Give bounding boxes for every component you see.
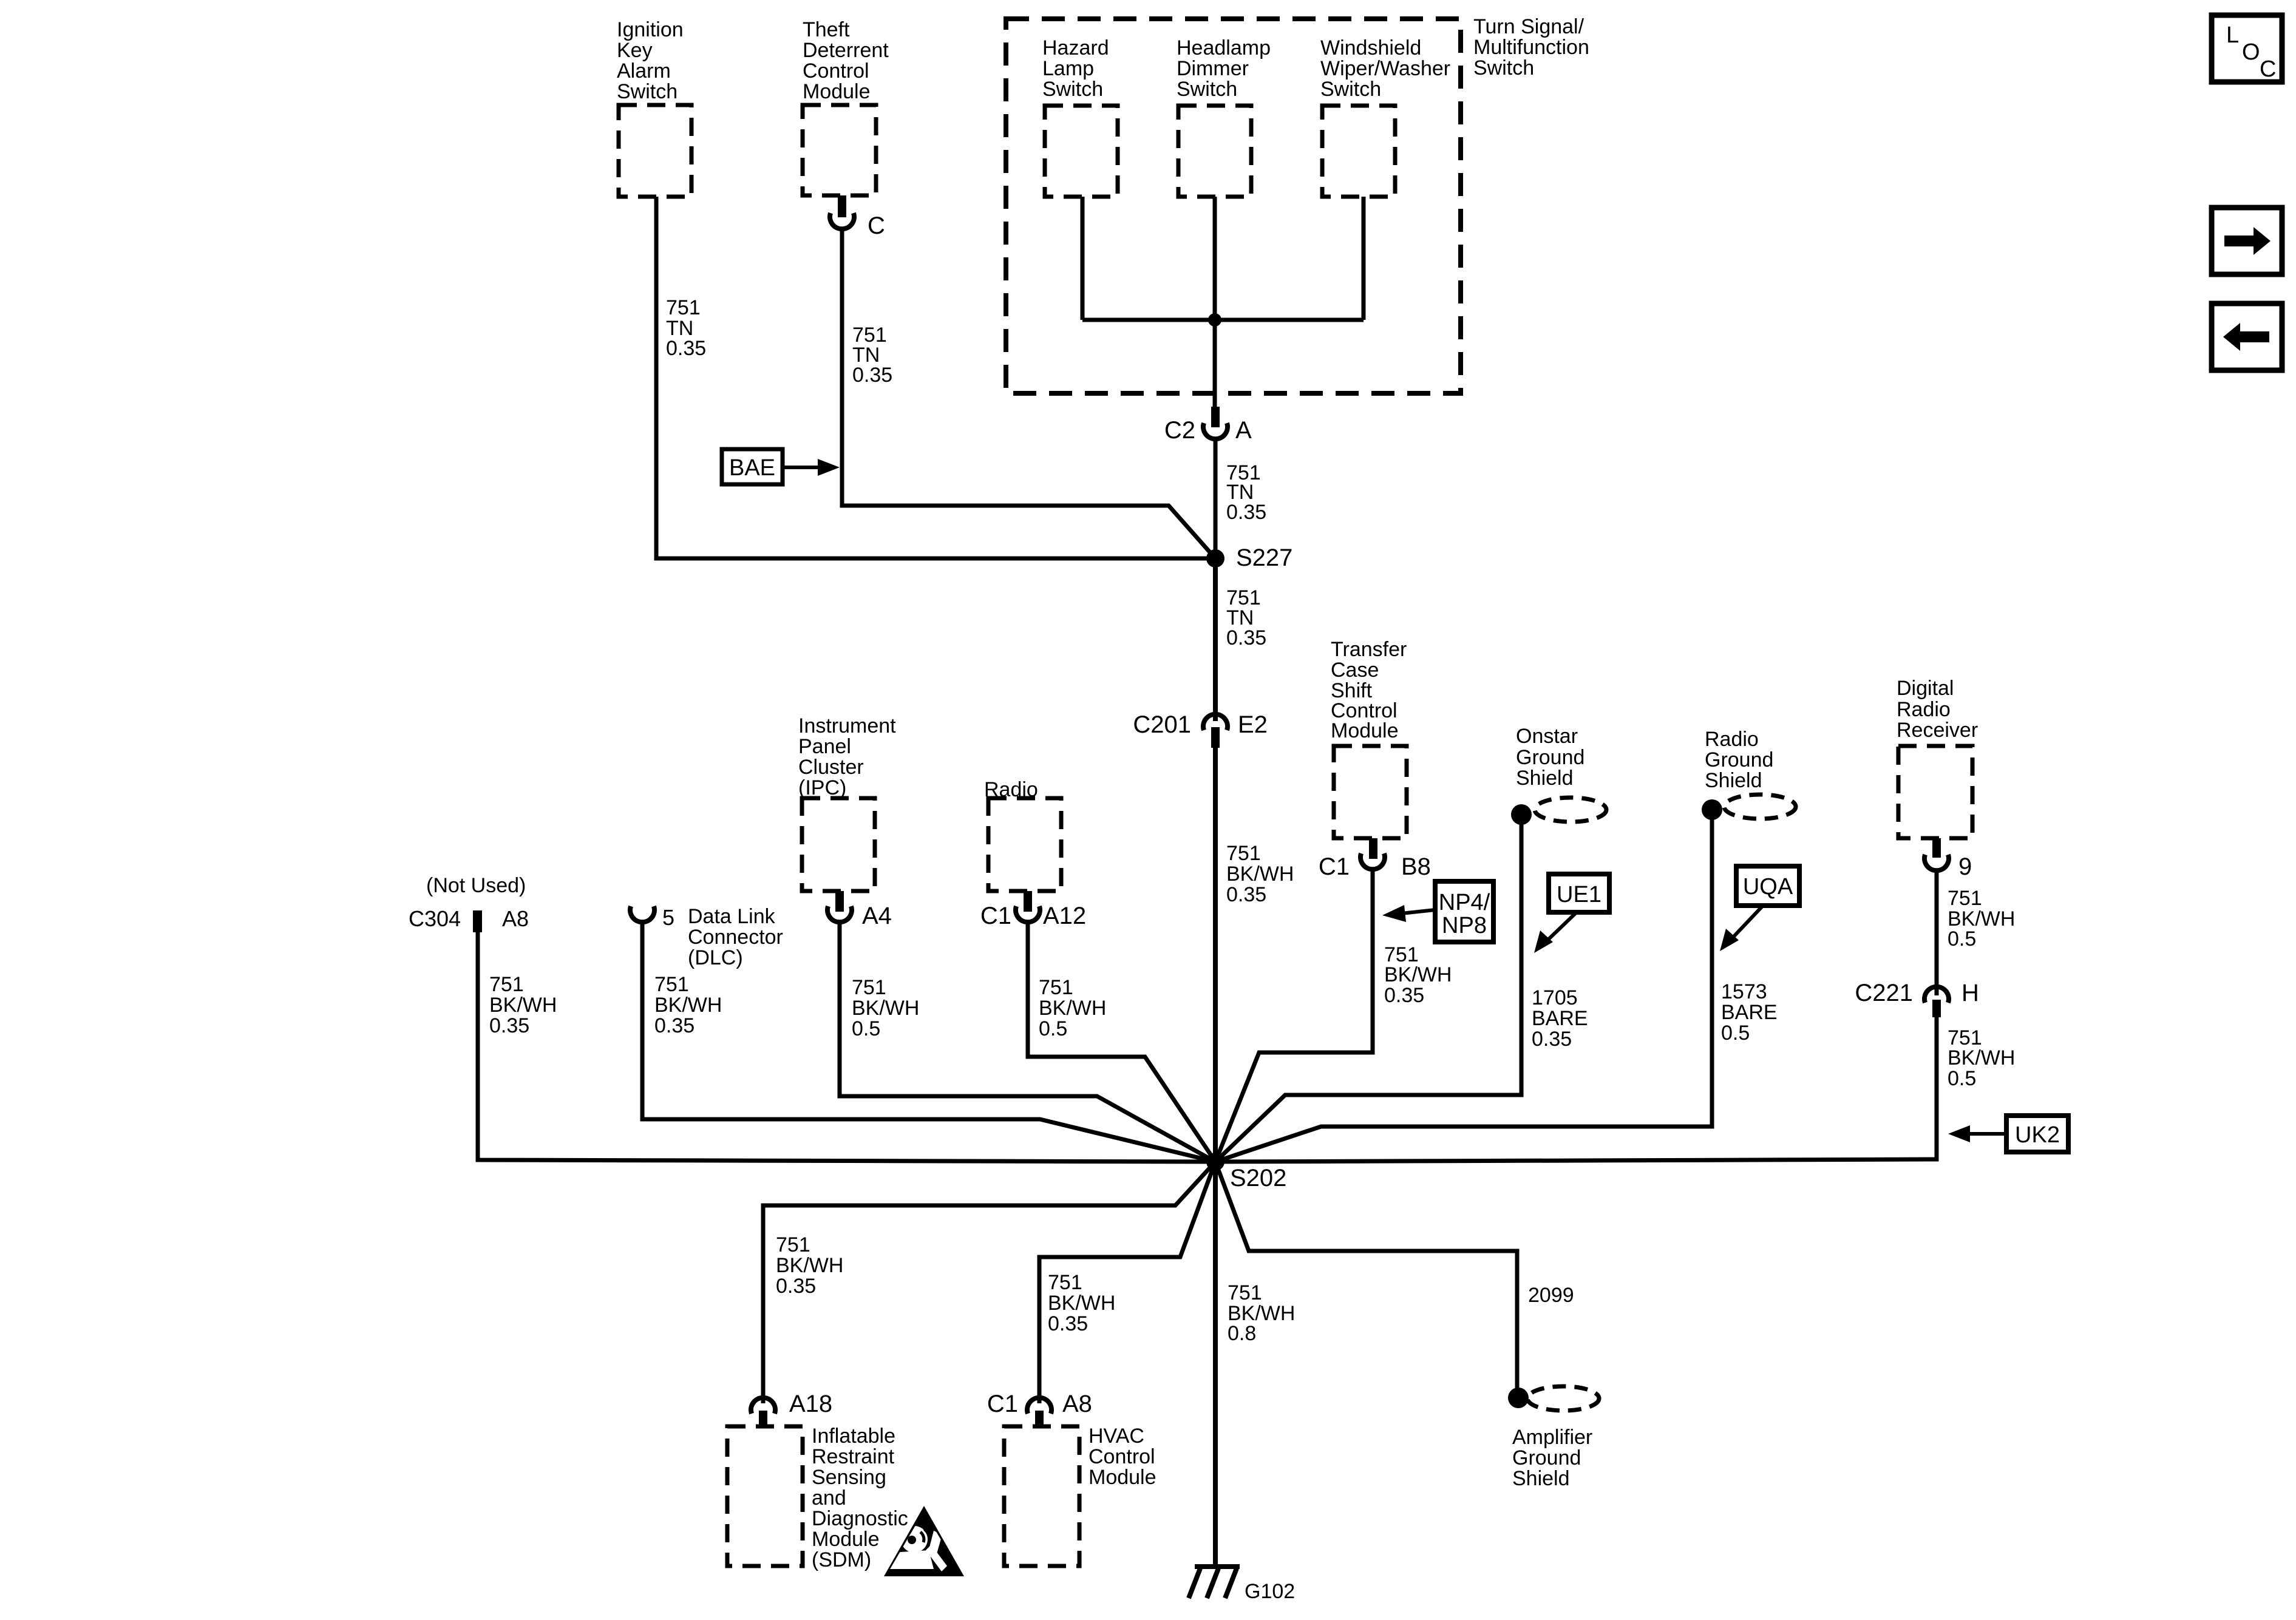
svg-text:C201: C201 bbox=[1133, 711, 1191, 738]
wire 1573 BARE from radio shield bbox=[1215, 810, 1712, 1162]
connector B8 arc bbox=[1360, 853, 1385, 869]
svg-text:Shield: Shield bbox=[1516, 767, 1574, 790]
svg-text:0.5: 0.5 bbox=[852, 1017, 880, 1040]
svg-text:(SDM): (SDM) bbox=[812, 1548, 871, 1571]
connector 9 arc bbox=[1924, 855, 1949, 870]
connector C304 stub (not used) bbox=[473, 910, 482, 932]
svg-text:Diagnostic: Diagnostic bbox=[812, 1507, 908, 1530]
svg-text:0.35: 0.35 bbox=[1048, 1312, 1088, 1335]
svg-text:Lamp: Lamp bbox=[1042, 57, 1094, 80]
junction S227 bbox=[1206, 549, 1224, 568]
wire S227 to C201 bbox=[1213, 558, 1218, 721]
transfer case shift control module box bbox=[1334, 746, 1407, 838]
svg-text:A12: A12 bbox=[1043, 903, 1086, 929]
svg-text:0.35: 0.35 bbox=[666, 337, 706, 360]
svg-text:A: A bbox=[1235, 417, 1252, 444]
svg-text:O: O bbox=[2242, 39, 2260, 65]
svg-text:Module: Module bbox=[812, 1528, 880, 1551]
svg-text:0.35: 0.35 bbox=[852, 364, 892, 387]
wire from hazard lamp switch bbox=[1081, 197, 1085, 320]
wire label 751 TN 0.35 (ignition) bbox=[666, 296, 706, 360]
svg-text:C221: C221 bbox=[1855, 980, 1913, 1006]
svg-text:0.35: 0.35 bbox=[1226, 501, 1266, 524]
UE1 arrow bbox=[1546, 912, 1577, 941]
amplifier ground shield label bbox=[1512, 1426, 1592, 1490]
svg-text:C1: C1 bbox=[987, 1391, 1018, 1417]
svg-text:BARE: BARE bbox=[1532, 1007, 1588, 1030]
connector C221 arc bbox=[1924, 987, 1949, 1003]
svg-text:0.35: 0.35 bbox=[1384, 984, 1424, 1007]
svg-text:Module: Module bbox=[803, 80, 871, 103]
connector C201 arc bbox=[1203, 714, 1228, 730]
connector A8 pin stub (HVAC) bbox=[1035, 1411, 1044, 1428]
svg-text:Switch: Switch bbox=[1320, 78, 1381, 101]
ignition key alarm switch box bbox=[619, 105, 691, 197]
wire C221 to S202 bbox=[1215, 1017, 1937, 1162]
svg-text:UK2: UK2 bbox=[2015, 1122, 2060, 1148]
left arrow icon bbox=[2223, 323, 2269, 351]
svg-text:C: C bbox=[2260, 56, 2276, 82]
svg-text:Instrument: Instrument bbox=[798, 714, 896, 737]
wire label 751 BK/WH 0.5 (C221) bbox=[1948, 1026, 2015, 1090]
connector A8 arc (HVAC) bbox=[1027, 1398, 1051, 1414]
wire label 751 BK/WH 0.35 (transfer) bbox=[1384, 943, 1452, 1007]
LOC legend box bbox=[2212, 15, 2282, 82]
svg-text:0.5: 0.5 bbox=[1721, 1022, 1750, 1045]
wire label 751 TN 0.35 (theft) bbox=[852, 324, 892, 387]
svg-text:Ignition: Ignition bbox=[617, 18, 684, 41]
connector 5 arc (DLC) bbox=[630, 906, 654, 922]
svg-text:BK/WH: BK/WH bbox=[1948, 1046, 2015, 1069]
turn signal / multifunction switch outer box bbox=[1006, 19, 1461, 393]
svg-text:NP4/: NP4/ bbox=[1439, 890, 1490, 915]
svg-text:Turn Signal/: Turn Signal/ bbox=[1473, 15, 1584, 38]
svg-text:751: 751 bbox=[1048, 1271, 1082, 1294]
svg-text:A18: A18 bbox=[789, 1391, 832, 1417]
internal junction dot bbox=[1208, 313, 1221, 327]
svg-text:0.35: 0.35 bbox=[489, 1014, 529, 1037]
wire label 751 BK/WH 0.35 (DLC) bbox=[654, 973, 722, 1037]
connector A18 pin stub bbox=[759, 1411, 767, 1428]
wire label 751 BK/WH 0.35 (main) bbox=[1226, 842, 1294, 906]
svg-text:Control: Control bbox=[803, 59, 869, 83]
connector 9 pin stub bbox=[1932, 838, 1941, 858]
svg-text:1705: 1705 bbox=[1532, 986, 1578, 1009]
svg-text:C1: C1 bbox=[980, 903, 1011, 929]
svg-text:BK/WH: BK/WH bbox=[1226, 863, 1294, 886]
svg-text:BK/WH: BK/WH bbox=[1048, 1292, 1115, 1315]
svg-text:0.35: 0.35 bbox=[1226, 883, 1266, 906]
svg-text:5: 5 bbox=[662, 905, 674, 930]
connector C201 pin stub bbox=[1211, 727, 1220, 748]
connector A18 arc bbox=[751, 1398, 775, 1414]
svg-text:0.35: 0.35 bbox=[654, 1014, 695, 1037]
svg-text:Ground: Ground bbox=[1705, 748, 1773, 771]
wire C2 to S227 bbox=[1214, 439, 1218, 558]
wire 1705 BARE from onstar shield bbox=[1215, 815, 1521, 1162]
wire label 751 BK/WH 0.5 (IPC) bbox=[852, 976, 919, 1040]
wire 751 BK/WH to SDM bbox=[763, 1162, 1215, 1403]
svg-text:C1: C1 bbox=[1319, 853, 1350, 880]
svg-text:0.35: 0.35 bbox=[1532, 1028, 1572, 1051]
inflatable restraint SDM label bbox=[812, 1425, 908, 1571]
svg-text:751: 751 bbox=[654, 973, 689, 996]
svg-text:BK/WH: BK/WH bbox=[489, 994, 557, 1017]
svg-text:BK/WH: BK/WH bbox=[776, 1254, 843, 1277]
BAE option box bbox=[722, 449, 783, 484]
svg-text:HVAC: HVAC bbox=[1089, 1425, 1144, 1448]
svg-text:S202: S202 bbox=[1230, 1165, 1286, 1191]
digital radio receiver label bbox=[1897, 677, 1978, 742]
connector A12 arc bbox=[1016, 906, 1040, 922]
svg-text:Shield: Shield bbox=[1512, 1467, 1570, 1490]
internal bus wire bbox=[1082, 318, 1364, 322]
right arrow navigation box bbox=[2212, 208, 2282, 274]
svg-text:(Not Used): (Not Used) bbox=[426, 874, 526, 897]
svg-text:Radio: Radio bbox=[1897, 698, 1951, 721]
svg-text:(DLC): (DLC) bbox=[688, 946, 743, 969]
wire C201 to S202 bbox=[1213, 748, 1218, 1162]
UK2 option box bbox=[2006, 1116, 2068, 1152]
radio ground shield label bbox=[1705, 728, 1773, 792]
onstar ground shield dot bbox=[1511, 804, 1532, 825]
svg-text:Control: Control bbox=[1089, 1445, 1155, 1468]
svg-text:Deterrent: Deterrent bbox=[803, 39, 889, 62]
wire label 751 BK/WH 0.35 (C304) bbox=[489, 973, 557, 1037]
svg-text:751: 751 bbox=[1948, 887, 1982, 910]
wire label 1705 BARE 0.35 bbox=[1532, 986, 1588, 1051]
UE1 option box bbox=[1549, 874, 1609, 912]
right arrow icon bbox=[2224, 227, 2271, 255]
onstar ground shield label bbox=[1516, 725, 1584, 790]
hazard lamp switch label bbox=[1042, 36, 1109, 101]
svg-text:BAE: BAE bbox=[729, 455, 775, 481]
svg-text:A4: A4 bbox=[862, 903, 892, 929]
svg-text:Amplifier: Amplifier bbox=[1512, 1426, 1592, 1449]
wire 751 BK/WH from transfer case module bbox=[1215, 870, 1373, 1162]
svg-text:G102: G102 bbox=[1245, 1580, 1295, 1603]
svg-text:and: and bbox=[812, 1486, 846, 1510]
wire from headlamp dimmer switch bbox=[1213, 197, 1217, 320]
wire label 751 BK/WH 0.35 (SDM) bbox=[776, 1233, 843, 1298]
wire label 751 BK/WH 0.8 bbox=[1228, 1281, 1295, 1345]
theft deterrent control module box bbox=[803, 105, 876, 195]
wire from junction to C2 bbox=[1213, 320, 1217, 408]
svg-text:751: 751 bbox=[1228, 1281, 1262, 1304]
svg-text:Inflatable: Inflatable bbox=[812, 1425, 895, 1448]
svg-text:BK/WH: BK/WH bbox=[852, 997, 919, 1020]
UK2 arrow bbox=[1967, 1132, 2006, 1136]
radio ground shield ellipse bbox=[1724, 795, 1796, 819]
BAE arrow bbox=[784, 466, 821, 469]
svg-text:0.8: 0.8 bbox=[1228, 1322, 1256, 1345]
svg-text:0.35: 0.35 bbox=[776, 1275, 816, 1298]
wire S202 to G102 bbox=[1213, 1162, 1218, 1567]
wire 751 BK/WH from radio bbox=[1028, 923, 1215, 1162]
airbag warning triangle bbox=[884, 1506, 964, 1576]
svg-text:Connector: Connector bbox=[688, 926, 783, 949]
UQA arrow bbox=[1731, 906, 1763, 939]
svg-text:0.5: 0.5 bbox=[1948, 927, 1976, 951]
svg-text:C304: C304 bbox=[409, 906, 461, 931]
headlamp dimmer switch label bbox=[1177, 36, 1271, 101]
data link connector label bbox=[688, 905, 783, 969]
svg-text:Module: Module bbox=[1331, 719, 1399, 742]
svg-text:C: C bbox=[868, 212, 885, 239]
HVAC control module box bbox=[1004, 1426, 1079, 1566]
svg-text:Module: Module bbox=[1089, 1466, 1156, 1489]
svg-text:UE1: UE1 bbox=[1557, 882, 1601, 907]
svg-text:BARE: BARE bbox=[1721, 1001, 1778, 1024]
svg-text:Radio: Radio bbox=[1705, 728, 1759, 751]
svg-text:Ground: Ground bbox=[1512, 1446, 1581, 1469]
wire label 751 TN 0.35 (C2) bbox=[1226, 461, 1266, 524]
svg-text:751: 751 bbox=[852, 976, 886, 999]
svg-text:Theft: Theft bbox=[803, 18, 850, 41]
svg-text:Panel: Panel bbox=[798, 735, 851, 758]
headlamp dimmer switch box bbox=[1178, 106, 1251, 197]
svg-text:Alarm: Alarm bbox=[617, 59, 671, 83]
svg-text:2099: 2099 bbox=[1528, 1284, 1574, 1307]
connector C pin stub (theft) bbox=[838, 195, 846, 217]
svg-text:BK/WH: BK/WH bbox=[1384, 963, 1452, 986]
wire 2099 to amplifier shield bbox=[1215, 1162, 1517, 1398]
svg-text:Receiver: Receiver bbox=[1897, 719, 1978, 742]
LOC letters bbox=[2226, 22, 2276, 82]
UQA option box bbox=[1736, 866, 1799, 906]
svg-text:Digital: Digital bbox=[1897, 677, 1954, 700]
wire label 751 TN 0.35 (S227) bbox=[1226, 586, 1266, 649]
svg-text:BK/WH: BK/WH bbox=[1039, 997, 1106, 1020]
HVAC control module label bbox=[1089, 1425, 1156, 1489]
hazard lamp switch box bbox=[1045, 106, 1118, 197]
svg-text:Sensing: Sensing bbox=[812, 1466, 886, 1489]
connector C2 arc bbox=[1203, 423, 1228, 439]
connector A4 arc bbox=[827, 906, 852, 922]
wire from windshield wiper/washer switch bbox=[1362, 197, 1366, 320]
svg-text:Switch: Switch bbox=[1177, 78, 1237, 101]
wire 751 BK/WH to HVAC bbox=[1039, 1162, 1215, 1403]
instrument panel cluster box bbox=[802, 798, 875, 891]
svg-text:Hazard: Hazard bbox=[1042, 36, 1109, 59]
amplifier ground shield dot bbox=[1508, 1388, 1529, 1408]
amplifier ground shield ellipse bbox=[1527, 1386, 1599, 1411]
onstar ground shield ellipse bbox=[1535, 798, 1606, 822]
connector B8 pin stub bbox=[1369, 838, 1377, 859]
svg-text:751: 751 bbox=[666, 296, 701, 319]
theft deterrent control module label bbox=[803, 18, 889, 103]
svg-text:BK/WH: BK/WH bbox=[654, 994, 722, 1017]
ignition key alarm switch label bbox=[617, 18, 684, 103]
svg-text:C2: C2 bbox=[1164, 417, 1195, 444]
wire 751 TN from theft module bbox=[842, 229, 1215, 558]
svg-text:Switch: Switch bbox=[1473, 56, 1534, 80]
connector C2 pin stub bbox=[1211, 407, 1220, 427]
NP4/NP8 arrow bbox=[1401, 910, 1435, 913]
svg-text:Shield: Shield bbox=[1705, 769, 1762, 792]
svg-text:1573: 1573 bbox=[1721, 980, 1767, 1003]
svg-text:(IPC): (IPC) bbox=[798, 776, 846, 799]
svg-text:Wiper/Washer: Wiper/Washer bbox=[1320, 57, 1450, 80]
svg-text:751: 751 bbox=[489, 973, 524, 996]
transfer case shift control module label bbox=[1331, 638, 1407, 742]
wire label 1573 BARE 0.5 bbox=[1721, 980, 1778, 1045]
svg-text:Windshield: Windshield bbox=[1320, 36, 1421, 59]
svg-text:751: 751 bbox=[776, 1233, 810, 1256]
wire 751 TN from ignition switch bbox=[656, 197, 1215, 558]
instrument panel cluster label bbox=[798, 714, 896, 799]
svg-text:Switch: Switch bbox=[617, 80, 678, 103]
connector A12 pin stub bbox=[1024, 891, 1032, 912]
svg-text:Case: Case bbox=[1331, 659, 1379, 682]
svg-text:Multifunction: Multifunction bbox=[1473, 36, 1589, 59]
svg-text:0.35: 0.35 bbox=[1226, 626, 1266, 649]
svg-text:S227: S227 bbox=[1236, 544, 1292, 571]
radio ground shield dot bbox=[1702, 799, 1722, 820]
NP4/NP8 label bbox=[1439, 890, 1490, 938]
svg-text:A8: A8 bbox=[1062, 1391, 1092, 1417]
svg-text:Transfer: Transfer bbox=[1331, 638, 1407, 661]
wire 751 BK/WH from C304 bbox=[478, 932, 1215, 1162]
ground symbol G102 bbox=[1189, 1567, 1240, 1598]
svg-text:Onstar: Onstar bbox=[1516, 725, 1578, 748]
svg-text:E2: E2 bbox=[1238, 711, 1268, 738]
svg-text:NP8: NP8 bbox=[1442, 913, 1487, 938]
svg-text:B8: B8 bbox=[1401, 853, 1431, 880]
svg-text:Data Link: Data Link bbox=[688, 905, 776, 928]
digital radio receiver box bbox=[1898, 746, 1972, 838]
svg-text:0.5: 0.5 bbox=[1948, 1067, 1976, 1090]
left arrow navigation box bbox=[2212, 303, 2282, 370]
wire 751 BK/WH from DLC bbox=[642, 923, 1215, 1162]
wire 751 BK/WH from IPC bbox=[840, 923, 1215, 1162]
svg-text:9: 9 bbox=[1958, 853, 1972, 880]
svg-text:751: 751 bbox=[1039, 976, 1073, 999]
svg-text:L: L bbox=[2226, 22, 2239, 48]
svg-text:0.5: 0.5 bbox=[1039, 1017, 1067, 1040]
svg-text:Ground: Ground bbox=[1516, 746, 1584, 769]
radio box bbox=[988, 798, 1061, 891]
svg-text:751: 751 bbox=[1226, 842, 1261, 865]
wire label 751 BK/WH 0.5 (radio) bbox=[1039, 976, 1106, 1040]
windshield wiper/washer switch box bbox=[1322, 106, 1395, 197]
connector C221 pin stub bbox=[1932, 1000, 1941, 1017]
junction S202 bbox=[1206, 1153, 1224, 1171]
svg-text:Cluster: Cluster bbox=[798, 756, 864, 779]
svg-text:UQA: UQA bbox=[1743, 874, 1793, 900]
svg-text:Restraint: Restraint bbox=[812, 1445, 895, 1468]
windshield wiper/washer switch label bbox=[1320, 36, 1450, 101]
turn signal / multifunction switch label bbox=[1473, 15, 1589, 80]
svg-text:Dimmer: Dimmer bbox=[1177, 57, 1249, 80]
wire 751 BK/WH from digital radio receiver bbox=[1935, 871, 1939, 995]
connector C arc (theft) bbox=[830, 213, 854, 229]
svg-text:Key: Key bbox=[617, 39, 653, 62]
svg-text:Switch: Switch bbox=[1042, 78, 1103, 101]
wire label 751 BK/WH 0.5 (digital) bbox=[1948, 887, 2015, 951]
inflatable restraint SDM box bbox=[727, 1426, 803, 1566]
svg-text:H: H bbox=[1961, 980, 1979, 1006]
svg-text:A8: A8 bbox=[502, 906, 529, 931]
NP4/NP8 option box bbox=[1435, 881, 1493, 942]
svg-text:Headlamp: Headlamp bbox=[1177, 36, 1271, 59]
connector A4 pin stub bbox=[835, 891, 844, 912]
wire label 751 BK/WH 0.35 (HVAC) bbox=[1048, 1271, 1115, 1335]
